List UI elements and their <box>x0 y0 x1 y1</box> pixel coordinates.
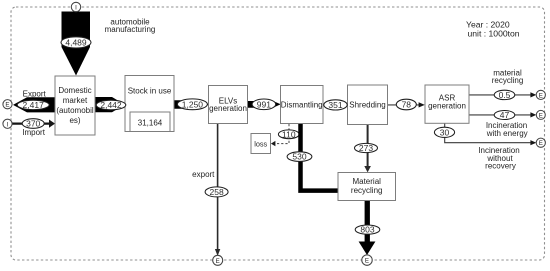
node E bottom 803 <box>362 255 372 265</box>
node E right 0.5 <box>536 90 545 99</box>
line 47 (ASR to E, incineration with energy) <box>469 114 531 116</box>
flow arrow 2,417 (export, thick black left) <box>13 97 56 112</box>
svg-text:Shredding: Shredding <box>349 101 385 110</box>
svg-text:es): es) <box>69 116 80 125</box>
svg-text:991: 991 <box>257 100 271 110</box>
svg-text:Material: Material <box>352 177 381 186</box>
svg-text:258: 258 <box>210 187 224 197</box>
oval 1,250 <box>177 99 207 110</box>
box Dismantling <box>281 86 324 124</box>
svg-text:E: E <box>539 140 543 147</box>
svg-text:recovery: recovery <box>485 162 516 171</box>
box ELVs generation <box>209 86 248 124</box>
flow arrow 2,442 (domestic market to stock, thick black right) <box>95 97 125 112</box>
svg-text:530: 530 <box>292 152 306 162</box>
svg-text:export: export <box>192 170 215 179</box>
svg-text:47: 47 <box>500 110 510 120</box>
node I left (import) <box>3 119 12 128</box>
oval 370 <box>22 119 44 129</box>
node E right 47 <box>536 110 545 119</box>
line 273 (shredding down to material recycling) <box>367 125 369 167</box>
svg-text:4,489: 4,489 <box>65 38 87 48</box>
svg-text:recycling: recycling <box>492 76 524 85</box>
svg-text:803: 803 <box>360 225 374 235</box>
oval 4,489 <box>61 37 91 48</box>
svg-text:Stock in use: Stock in use <box>128 87 172 96</box>
svg-text:273: 273 <box>359 143 373 153</box>
oval 110 <box>278 129 299 139</box>
oval 0.5 <box>494 90 515 100</box>
label Incineration with energy <box>486 121 528 138</box>
svg-text:351: 351 <box>328 100 342 110</box>
oval 351 <box>324 100 347 110</box>
dashed loss line 110 <box>275 124 289 144</box>
flow arrow 1,250 (stock to ELVs generation, thick black right) <box>175 100 210 109</box>
oval 273 <box>355 143 378 153</box>
line 78 (shredding to ASR generation) <box>388 104 420 106</box>
node E right 30 <box>536 138 545 147</box>
oval 258 <box>205 187 228 197</box>
svg-text:E: E <box>365 258 369 265</box>
title Year/unit <box>466 20 520 39</box>
svg-text:Import: Import <box>22 128 45 137</box>
oval 530 <box>287 152 312 162</box>
svg-text:Dismantling: Dismantling <box>281 101 323 110</box>
svg-text:78: 78 <box>402 100 412 110</box>
svg-text:110: 110 <box>282 129 296 139</box>
box Stock in use <box>125 76 174 132</box>
node E left (export) <box>3 100 12 109</box>
svg-text:1,250: 1,250 <box>182 100 204 110</box>
oval 803 <box>355 225 380 235</box>
svg-text:loss: loss <box>254 139 267 148</box>
flow 530 (dismantling down-right elbow to material recycling, thick black) <box>301 124 339 191</box>
svg-text:0.5: 0.5 <box>499 90 511 100</box>
svg-text:31,164: 31,164 <box>138 119 163 128</box>
svg-text:2,442: 2,442 <box>100 100 122 110</box>
svg-text:30: 30 <box>440 127 450 137</box>
svg-text:Export: Export <box>23 90 47 99</box>
svg-text:I: I <box>75 5 77 12</box>
label Incineration without recovery <box>478 146 519 170</box>
svg-text:recycling: recycling <box>351 186 383 195</box>
svg-text:I: I <box>7 121 9 128</box>
box ASR generation <box>425 85 469 123</box>
flow 803 (material recycling down to export E, thick black) <box>365 201 370 243</box>
box Shredding <box>348 85 388 125</box>
box loss <box>251 134 271 154</box>
import line 370 <box>12 122 50 124</box>
oval 2,417 <box>17 100 49 110</box>
oval 78 <box>396 99 416 110</box>
svg-text:2,417: 2,417 <box>23 100 45 110</box>
svg-text:generation: generation <box>209 104 247 113</box>
oval 991 <box>252 99 276 110</box>
svg-text:E: E <box>539 92 543 99</box>
svg-text:unit : 1000ton: unit : 1000ton <box>468 28 520 38</box>
label automobile manufacturing <box>105 17 156 34</box>
svg-text:manufacturing: manufacturing <box>105 25 156 34</box>
flow arrow 4,489 (manufacturing into domestic market, thick black down) <box>62 12 91 76</box>
oval 30 <box>434 127 454 137</box>
export line 258 <box>217 123 219 250</box>
label material recycling (right) <box>492 68 524 85</box>
svg-text:(automobil: (automobil <box>56 106 94 115</box>
oval 2,442 <box>96 100 126 110</box>
node I top (import) <box>71 2 80 11</box>
inner box 31,164 <box>130 112 170 132</box>
svg-text:with energy: with energy <box>486 129 528 138</box>
node E bottom export 258 <box>213 255 223 265</box>
oval 47 <box>494 110 515 120</box>
svg-text:Domestic: Domestic <box>58 86 91 95</box>
svg-text:E: E <box>5 102 9 109</box>
line 0.5 (ASR to E, material recycling) <box>469 94 531 96</box>
box Material recycling <box>338 173 396 201</box>
flow arrow 991 (ELVs generation to dismantling, thick black right) <box>248 101 281 108</box>
svg-text:E: E <box>539 112 543 119</box>
box Domestic market <box>55 76 95 135</box>
svg-text:generation: generation <box>428 102 466 111</box>
svg-text:E: E <box>216 258 220 265</box>
line 30 (ASR down then right to E, incineration without recovery) <box>445 123 531 142</box>
svg-text:market: market <box>63 96 88 105</box>
